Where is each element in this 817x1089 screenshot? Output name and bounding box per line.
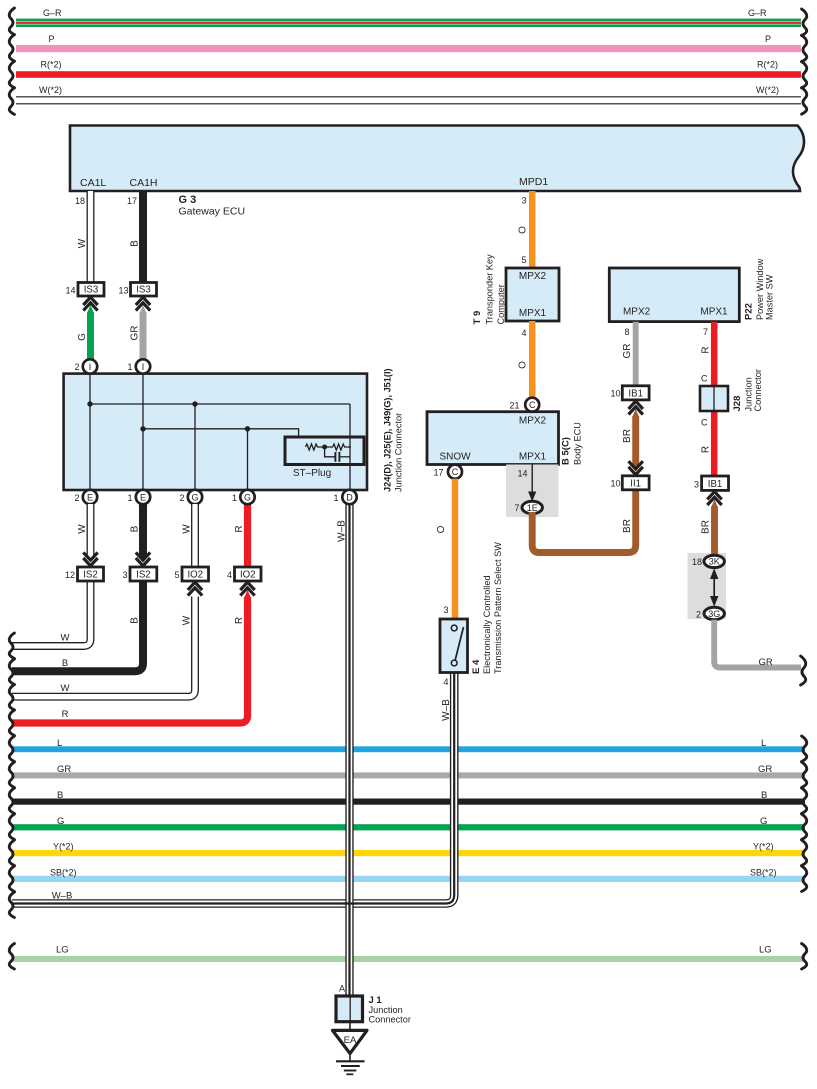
svg-text:18: 18 <box>692 557 702 567</box>
svg-text:1: 1 <box>333 493 338 503</box>
svg-text:Electronically Controlled: Electronically Controlled <box>482 575 492 674</box>
wire O orange from MPD1 pin 3 to T9 <box>529 191 536 268</box>
internal wiring of junction connector <box>89 374 91 490</box>
gray shade box 3K/3G <box>688 553 727 619</box>
svg-text:7: 7 <box>514 503 519 513</box>
svg-text:L: L <box>761 738 766 749</box>
wire BR brown from IB1-3 to 3K <box>711 499 718 507</box>
svg-text:EA: EA <box>344 1035 357 1046</box>
svg-text:R: R <box>701 346 712 353</box>
svg-text:4: 4 <box>227 570 232 580</box>
wire B from J24 pin E1 <box>139 555 147 563</box>
junction connector J24/J25/J49/J51 box <box>64 374 367 490</box>
svg-text:G 3: G 3 <box>179 194 197 206</box>
svg-text:IO2: IO2 <box>187 570 203 581</box>
wire BR brown U from 1E to II1 <box>532 490 636 553</box>
wire W from J24 pin E2 <box>87 504 95 555</box>
wire R(*2) bus (top) <box>16 71 801 78</box>
svg-text:MPX2: MPX2 <box>623 307 651 318</box>
svg-text:10: 10 <box>610 389 620 399</box>
svg-text:3K: 3K <box>709 557 720 567</box>
wire LG bus <box>12 956 805 962</box>
SW P22 Power Window Master SW box <box>609 268 739 322</box>
svg-text:W: W <box>181 615 192 625</box>
svg-text:GR: GR <box>129 326 140 341</box>
svg-text:B: B <box>761 790 767 801</box>
wire GR gray from 3G to right break <box>714 620 801 668</box>
svg-text:IS3: IS3 <box>136 285 151 296</box>
wire W(*2) bus (top) <box>16 96 801 98</box>
switch E4 box <box>440 619 468 673</box>
svg-text:I: I <box>142 362 145 372</box>
svg-text:C: C <box>701 374 708 384</box>
svg-text:R: R <box>234 525 245 532</box>
svg-text:BR: BR <box>701 520 712 534</box>
svg-text:R(*2): R(*2) <box>757 60 778 70</box>
svg-text:IB1: IB1 <box>708 479 723 490</box>
svg-text:Connector: Connector <box>369 1015 411 1025</box>
svg-text:Junction Connector: Junction Connector <box>394 413 404 492</box>
svg-text:W(*2): W(*2) <box>39 85 62 95</box>
svg-text:G: G <box>244 493 251 503</box>
svg-text:W: W <box>181 524 192 534</box>
svg-text:Power Window: Power Window <box>755 258 765 320</box>
wire Y(*2) bus <box>12 850 805 856</box>
svg-text:14: 14 <box>517 469 527 479</box>
svg-text:L: L <box>57 738 62 749</box>
svg-text:B: B <box>62 658 68 669</box>
wire W from CA1L pin 18 <box>87 191 95 283</box>
svg-text:LG: LG <box>56 945 69 956</box>
svg-text:BR: BR <box>622 519 633 533</box>
resistor 2 in ST-Plug <box>325 444 351 450</box>
node dots <box>87 401 92 406</box>
svg-text:13: 13 <box>118 286 128 296</box>
svg-text:4: 4 <box>521 328 526 338</box>
svg-text:G: G <box>760 816 767 827</box>
svg-text:14: 14 <box>65 286 75 296</box>
svg-text:W(*2): W(*2) <box>756 85 779 95</box>
svg-text:G: G <box>57 816 64 827</box>
wire O orange from T9 MPX1 to B5 pin 21 <box>529 321 536 398</box>
svg-text:CA1H: CA1H <box>130 177 158 189</box>
svg-text:R: R <box>701 446 712 453</box>
wire B bus <box>12 799 805 805</box>
svg-text:W–B: W–B <box>337 520 348 542</box>
svg-text:O: O <box>436 525 447 533</box>
ECU G3 Gateway ECU box <box>70 126 804 192</box>
terminal 1E <box>522 501 542 513</box>
svg-text:A: A <box>339 984 345 994</box>
svg-text:2: 2 <box>696 610 701 620</box>
wire GR gray to J24 pin 1 <box>140 305 147 313</box>
svg-text:P: P <box>49 34 55 44</box>
junction connector J28 box <box>700 386 728 411</box>
wire R bus (middle left, from IO2 pin 4) <box>12 597 248 723</box>
wire SB(*2) bus <box>12 876 805 882</box>
svg-text:W: W <box>77 524 88 534</box>
break symbols right bottom <box>802 736 807 762</box>
wire GR bus <box>12 772 805 778</box>
svg-text:G–R: G–R <box>748 8 767 18</box>
ST-Plug box <box>285 437 364 465</box>
ground symbol <box>349 1054 351 1061</box>
svg-text:R: R <box>62 709 69 720</box>
svg-text:Y(*2): Y(*2) <box>753 842 774 852</box>
svg-text:2: 2 <box>74 493 79 503</box>
double arrow between 3K and 3G <box>713 576 715 599</box>
svg-text:Transmission Pattern Select SW: Transmission Pattern Select SW <box>493 542 503 674</box>
svg-text:IO2: IO2 <box>240 570 256 581</box>
svg-text:5: 5 <box>521 255 526 265</box>
svg-text:Gateway ECU: Gateway ECU <box>179 206 246 218</box>
svg-text:3: 3 <box>122 570 127 580</box>
svg-text:Junction: Junction <box>744 377 754 411</box>
svg-text:MPX1: MPX1 <box>519 308 547 319</box>
arrow from MPX1 pin 14 to 1E <box>531 465 533 494</box>
svg-text:C: C <box>529 400 536 410</box>
svg-text:GR: GR <box>758 764 772 775</box>
svg-text:E: E <box>140 493 146 503</box>
svg-text:3: 3 <box>521 196 526 206</box>
svg-text:P22: P22 <box>744 303 755 320</box>
svg-text:I: I <box>89 362 92 372</box>
svg-text:1: 1 <box>232 493 237 503</box>
svg-text:1E: 1E <box>527 503 538 513</box>
svg-text:CA1L: CA1L <box>80 177 106 189</box>
svg-text:E 4: E 4 <box>471 659 482 674</box>
svg-text:ST–Plug: ST–Plug <box>293 468 331 479</box>
break symbols left middle <box>9 633 14 659</box>
svg-text:SB(*2): SB(*2) <box>750 868 777 878</box>
svg-text:B 5(C): B 5(C) <box>561 437 572 465</box>
svg-text:D: D <box>346 493 353 503</box>
svg-text:P: P <box>765 34 771 44</box>
svg-text:W: W <box>61 683 70 694</box>
svg-text:J24(D), J25(E), J49(G), J51(I): J24(D), J25(E), J49(G), J51(I) <box>383 368 393 492</box>
svg-text:O: O <box>518 226 529 234</box>
svg-text:IS3: IS3 <box>84 285 99 296</box>
svg-text:MPD1: MPD1 <box>519 176 548 188</box>
svg-text:Body ECU: Body ECU <box>573 422 583 465</box>
svg-text:Computer: Computer <box>496 284 506 324</box>
svg-text:SNOW: SNOW <box>439 452 471 463</box>
svg-text:G: G <box>191 493 198 503</box>
svg-text:BR: BR <box>622 429 633 443</box>
svg-text:3: 3 <box>443 605 448 615</box>
svg-text:5: 5 <box>174 570 179 580</box>
wire BR brown IB1 to II1 <box>632 409 639 417</box>
svg-text:21: 21 <box>509 401 519 411</box>
junction connector J1 box <box>336 996 363 1022</box>
svg-text:17: 17 <box>433 468 443 478</box>
svg-text:C: C <box>701 418 708 428</box>
break symbols left bottom <box>9 736 14 762</box>
svg-text:GR: GR <box>622 344 633 359</box>
svg-text:Connector: Connector <box>753 369 763 411</box>
wire G-R bus (top) <box>16 19 801 22</box>
gray shade box below B5 <box>506 465 559 518</box>
svg-text:W: W <box>61 633 70 644</box>
wire B from CA1H pin 17 <box>139 191 147 283</box>
wire W-B (from E4 pin 4 down and left to break) <box>12 673 454 904</box>
switch contacts E4 <box>451 625 457 631</box>
svg-text:3G: 3G <box>708 609 720 619</box>
wire G bus <box>12 824 805 830</box>
svg-text:B: B <box>129 240 140 247</box>
wire O orange from SNOW to E4 pin 3 <box>452 479 459 619</box>
svg-text:1: 1 <box>127 493 132 503</box>
svg-text:10: 10 <box>610 479 620 489</box>
wire W-B (from J24 pin D down to J1) <box>345 504 353 996</box>
svg-text:B: B <box>57 790 63 801</box>
terminal C on B5 top <box>525 398 539 412</box>
svg-text:MPX1: MPX1 <box>700 307 728 318</box>
svg-text:8: 8 <box>624 327 629 337</box>
svg-text:17: 17 <box>127 196 137 206</box>
svg-text:R(*2): R(*2) <box>41 60 62 70</box>
svg-text:4: 4 <box>443 677 448 687</box>
svg-text:SB(*2): SB(*2) <box>50 868 77 878</box>
svg-text:7: 7 <box>703 327 708 337</box>
break symbols top right <box>802 9 807 36</box>
svg-text:Junction: Junction <box>369 1005 403 1015</box>
svg-text:O: O <box>518 361 529 369</box>
svg-text:C: C <box>452 467 459 477</box>
svg-text:G: G <box>77 333 88 341</box>
wire BR into shade box <box>711 553 718 556</box>
svg-text:IB1: IB1 <box>628 388 643 399</box>
svg-text:W–B: W–B <box>441 699 452 721</box>
ground triangle EA <box>333 1030 368 1053</box>
wire L bus <box>12 746 805 752</box>
ECU T9 Transponder Key Computer box <box>506 268 559 321</box>
svg-text:J28: J28 <box>732 396 743 412</box>
node dot between resistors <box>322 445 327 450</box>
svg-text:IS2: IS2 <box>83 570 98 581</box>
svg-text:MPX2: MPX2 <box>519 415 547 426</box>
wire B bus (middle left, from IS2 pin 3) <box>12 581 143 671</box>
svg-text:1: 1 <box>127 362 132 372</box>
svg-text:Master SW: Master SW <box>765 274 775 320</box>
wire W bus (middle left, from IS2 pin 12) <box>12 581 91 646</box>
wire G green to J24 pin 2 <box>87 305 94 313</box>
svg-text:LG: LG <box>759 945 772 956</box>
svg-text:MPX1: MPX1 <box>519 452 547 463</box>
break symbols top left <box>9 8 14 35</box>
wire W from J24 pin G2 <box>191 504 199 567</box>
svg-text:GR: GR <box>57 764 71 775</box>
svg-text:B: B <box>129 525 140 532</box>
svg-text:2: 2 <box>179 493 184 503</box>
svg-text:E: E <box>87 493 93 503</box>
svg-text:MPX2: MPX2 <box>519 271 547 282</box>
svg-text:Transponder Key: Transponder Key <box>484 254 494 325</box>
svg-text:IS2: IS2 <box>136 570 151 581</box>
capacitor in ST-Plug <box>325 447 335 457</box>
svg-text:B: B <box>129 617 140 624</box>
wire P bus (top) <box>16 45 801 52</box>
svg-text:18: 18 <box>75 196 85 206</box>
svg-text:2: 2 <box>74 362 79 372</box>
resistor 1 in ST-Plug <box>306 444 326 450</box>
break symbol right GR wire <box>801 656 806 685</box>
svg-text:R: R <box>234 617 245 624</box>
svg-text:W: W <box>77 238 88 248</box>
svg-text:Y(*2): Y(*2) <box>53 842 74 852</box>
wire W bus 2 (middle left, from IO2 pin 5) <box>12 597 195 697</box>
svg-text:3: 3 <box>694 480 699 490</box>
svg-text:12: 12 <box>65 570 75 580</box>
svg-text:GR: GR <box>759 657 773 668</box>
ECU B5(C) Body ECU box <box>427 412 559 465</box>
svg-text:G–R: G–R <box>43 8 62 18</box>
wire to ground <box>349 1022 351 1030</box>
svg-text:W–B: W–B <box>52 891 73 902</box>
svg-text:II1: II1 <box>630 478 641 489</box>
svg-text:T 9: T 9 <box>472 311 483 325</box>
